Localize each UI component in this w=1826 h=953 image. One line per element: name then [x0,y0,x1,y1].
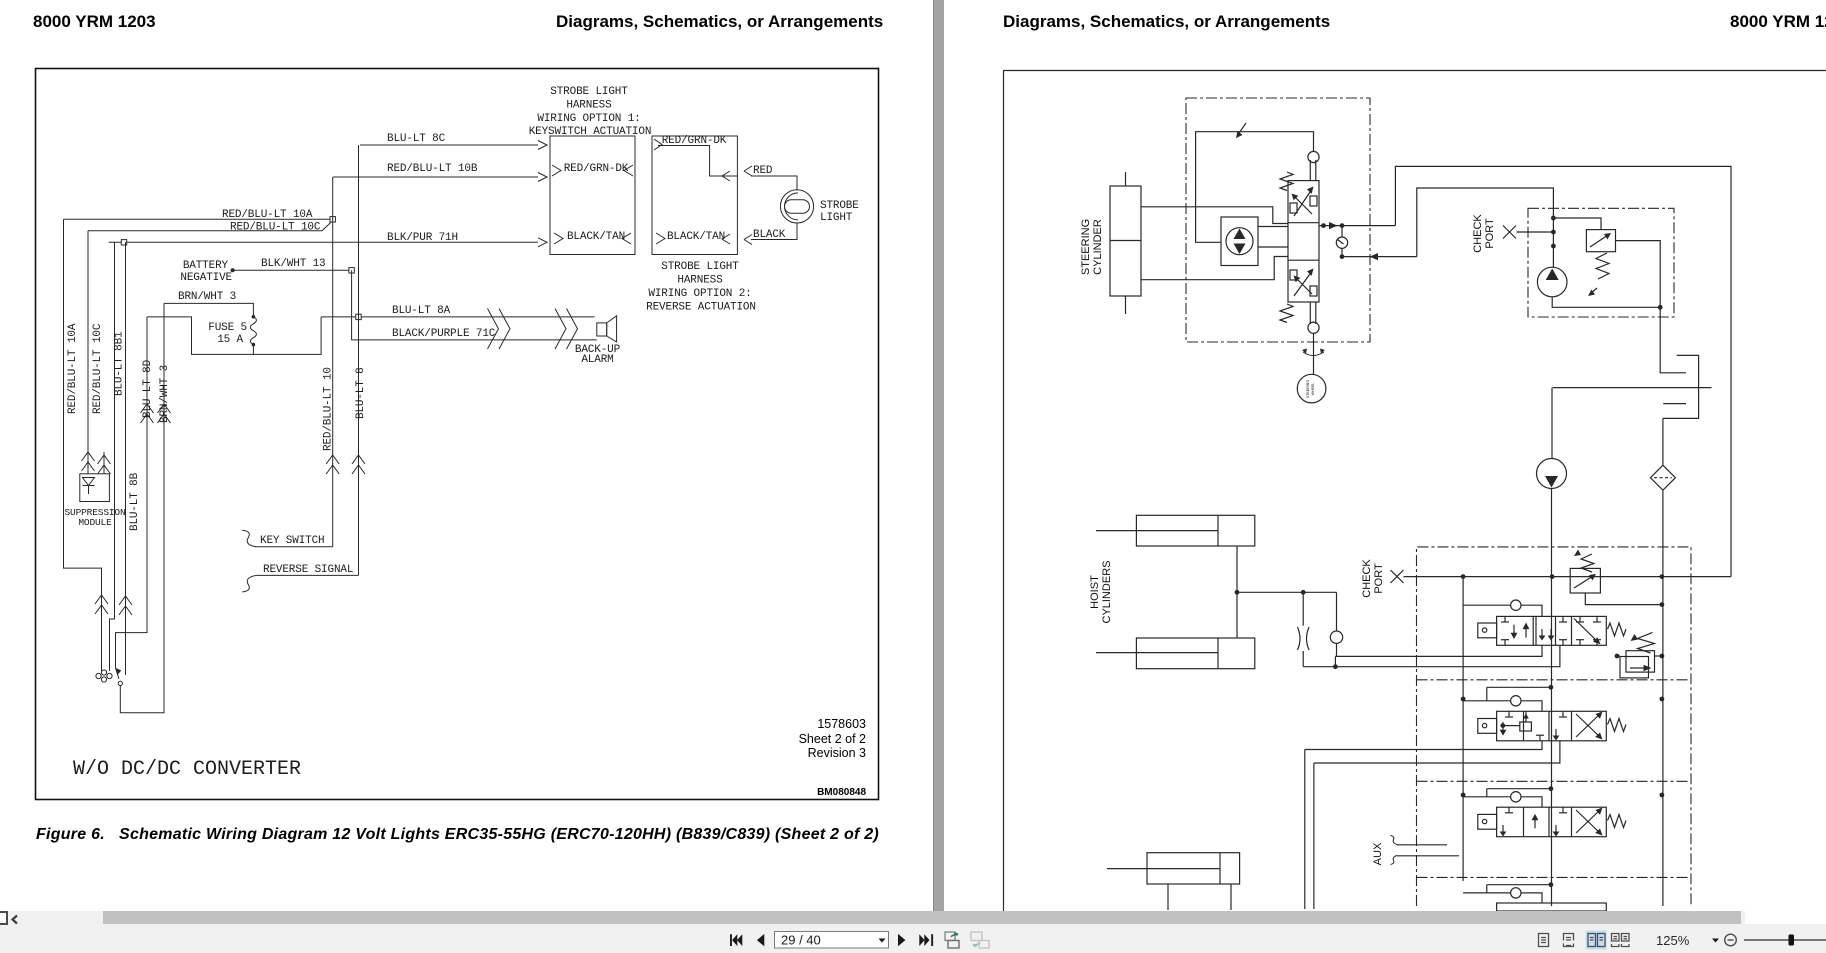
wire fuse output routing [147,317,253,355]
aux valve pilot check [1463,796,1511,798]
fourth valve section (partial) [1463,892,1511,894]
port relief valve RV3 [1615,633,1665,678]
LEFT SCHEMATIC SVG [0,0,913,953]
junction BLU-LT 8B1 [121,240,126,245]
steering cylinder [1110,186,1141,296]
left page caption [36,826,916,844]
wire return to steering [1342,256,1417,258]
svg-text:125%: 125% [1656,933,1690,948]
check port (main) [1391,570,1404,583]
tilt valve pilot line [1487,686,1551,688]
check valve [1341,226,1343,237]
wire cylinder to valve (bottom) [1141,257,1288,280]
main valve dash-dot enclosure [1417,547,1692,906]
tilt cylinder (bottom) [1147,853,1240,884]
svg-text:29 / 40: 29 / 40 [781,933,821,948]
connector J2 reverse actuation box [652,136,737,255]
wire cylinder to valve (top) [1141,207,1288,224]
last page button [919,934,933,946]
tank connector bracket [1660,307,1686,373]
bottom scrollbar row [0,911,1745,924]
pump supply line (vertical through valve bank) [1549,685,1554,690]
tilt valve pilot check [1463,700,1511,702]
label steering cylinder [1080,219,1092,275]
connector J1 keyswitch actuation box [550,136,635,255]
hoist cylinder tie line [1236,546,1238,638]
wire BLU-LT 8D (vertical) [116,317,148,668]
two page view icon (selected) [1586,931,1607,950]
wire BLU-LT 8B (vertical) [125,242,127,675]
schematic border frame [36,69,879,800]
hoist cylinder (lower) [1136,638,1254,669]
continuous scroll view icon [1564,934,1574,947]
zoom out button [1725,934,1737,946]
main relief valve [1581,554,1594,572]
relief valve (steering) [1553,218,1601,230]
wire pressure loop up [1395,166,1731,576]
wire BRN/WHT 3 (vertical) [120,303,164,712]
revision block [700,717,866,761]
filter [1662,418,1664,465]
supply rail horizontal [1404,576,1732,578]
wire supply to pump section [1417,188,1554,267]
pilot circles [1308,151,1319,162]
junction node 10A/10B [330,217,335,222]
wire BLU-LT 8B1 (vertical) [110,242,115,671]
tilt valve work lines [1305,741,1542,750]
check port (steering) [1503,226,1516,239]
two page scroll view icon [1612,934,1630,947]
aux control valve SV3 [1478,807,1626,837]
aux valve pilot line [1487,788,1551,790]
main pump [1551,388,1553,459]
wire BLU-LT 8 (vertical) [358,145,360,575]
feedback loop [1196,132,1314,243]
page number box [775,932,889,949]
steering wheel [1297,374,1326,403]
previous page button [757,934,764,946]
steering control valve body [1288,181,1319,302]
first page button [730,934,742,946]
orifice [1302,592,1304,625]
lamp strobe light [780,190,813,223]
pump section dash-dot enclosure [1528,208,1674,317]
wire RED/BLU-LT 10 (vertical) [332,177,334,547]
suppression module lead (right) [103,452,105,474]
wire RED/BLU-LT 10A (left vertical) [64,219,102,671]
right return rail dots [1660,602,1665,607]
hoist valve pilot check [1463,604,1511,606]
connector cluster [96,673,101,678]
zoom slider [1744,939,1826,941]
steering section dash-dot enclosure [1186,98,1370,342]
pump (steering supply) [1537,267,1567,297]
next view button (disabled) [971,932,989,948]
left page header [33,12,156,32]
previous view button [945,932,959,948]
single page view icon [1539,934,1549,947]
right page header [1003,12,1330,32]
wire valve to right (pressure) [1319,225,1395,227]
sidebar collapse chevron [13,916,18,924]
page divider [933,0,944,911]
hoist valve work lines [1335,645,1542,656]
left pilot rail [1462,577,1464,881]
lowering check valve [1336,592,1338,631]
metering pump bracket [1221,217,1258,266]
page border (right page) [1004,71,1826,912]
switch contact [116,668,120,679]
valve springs [1280,172,1293,191]
steering wheel shaft [1313,333,1315,374]
wire break chevrons [488,309,511,350]
metering pump [1226,228,1253,255]
RIGHT SCHEMATIC SVG [943,0,1826,911]
back-up alarm LS1 [597,323,607,336]
hoist cylinder (upper) [1136,515,1254,546]
wire RED/BLU-LT 10C (left vertical) [87,231,89,474]
suppression module [80,474,110,502]
label hoist cylinders [1089,575,1101,609]
next page button [898,934,905,946]
tilt control valve SV2 [1478,711,1626,741]
hoist control valve SV1 [1478,616,1626,645]
